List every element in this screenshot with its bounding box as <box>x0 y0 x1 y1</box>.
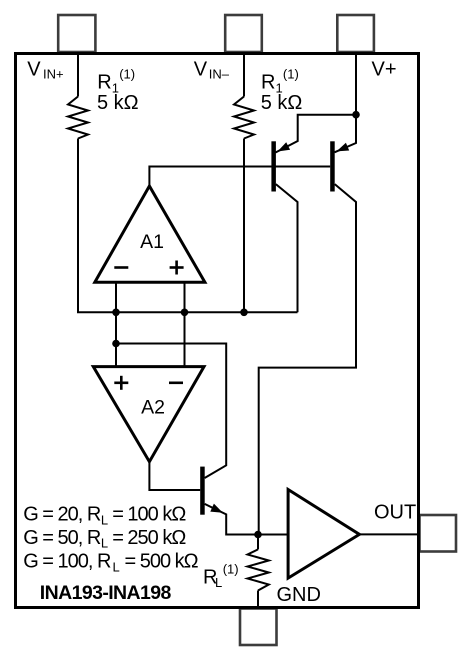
resistor RL <box>248 549 269 590</box>
svg-text:R: R <box>97 71 111 93</box>
transistor Q1 emitter wire <box>276 115 357 153</box>
op-amp A2 (triangle pointing down) <box>93 367 204 462</box>
label R1(1) middle <box>261 66 299 95</box>
transistor Q2 collector wire <box>259 184 356 534</box>
transistor Q2 emitter arrow <box>337 143 350 152</box>
svg-text:OUT: OUT <box>374 501 416 523</box>
wire A1 non-inverting input lead <box>184 282 186 312</box>
svg-text:L: L <box>101 536 108 551</box>
transistor Q1 emitter arrow <box>278 142 291 151</box>
junction dot node - (A1 inverting) <box>112 309 120 317</box>
wire A2 output to Q3 base <box>149 462 200 490</box>
wire A2 non-inverting lead from node <box>115 312 117 366</box>
A1 plus symbol <box>170 261 184 275</box>
svg-text:IN–: IN– <box>209 67 230 82</box>
label VIN+ <box>27 59 63 82</box>
resistor R1 (left, 5k) <box>68 97 88 139</box>
svg-text:A2: A2 <box>141 397 165 419</box>
wire buffer output to OUT pad <box>359 533 420 535</box>
device outline box <box>16 54 419 608</box>
wire output node to buffer input <box>258 534 288 536</box>
label RL(1) <box>203 562 239 591</box>
transistor Q3 emitter arrow <box>210 504 223 513</box>
transistor Q2 emitter wire <box>335 115 357 153</box>
svg-text:= 250 kΩ: = 250 kΩ <box>112 527 186 549</box>
gain table line 1 <box>23 504 186 528</box>
svg-text:(1): (1) <box>283 66 299 81</box>
wire A2 inverting lead <box>184 312 186 366</box>
svg-text:L: L <box>113 559 120 574</box>
transistor Q1 bar <box>271 141 276 191</box>
svg-text:G = 50, R: G = 50, R <box>23 527 101 549</box>
svg-text:A1: A1 <box>140 231 164 253</box>
svg-text:V: V <box>194 59 208 81</box>
resistor R1 (middle, 5k) <box>234 97 254 139</box>
svg-text:L: L <box>215 575 222 590</box>
svg-text:= 500 kΩ: = 500 kΩ <box>125 551 199 573</box>
svg-text:L: L <box>101 512 108 527</box>
pin pad V+ (top right) <box>337 15 374 52</box>
buffer amplifier (triangle pointing right) <box>288 490 359 579</box>
gain table line 3 <box>23 551 198 575</box>
junction dot V+ emitters <box>352 111 360 119</box>
svg-text:IN+: IN+ <box>43 67 64 82</box>
label R1(1) left <box>97 66 135 95</box>
svg-text:(1): (1) <box>223 562 239 577</box>
transistor Q3 bar <box>200 467 205 515</box>
wire RL to GND pad <box>257 591 259 608</box>
junction dot output node <box>254 531 262 539</box>
junction dot A2 + feedback <box>112 340 120 348</box>
wire VIN+ pad to resistor R1a <box>77 52 79 97</box>
wire R1b bottom to node <box>243 139 245 313</box>
svg-text:V: V <box>27 59 41 81</box>
pin pad VIN- (top middle) <box>225 15 262 52</box>
junction dot node + (A1 non-inverting) <box>181 309 189 317</box>
wire A1 inverting input lead <box>115 282 117 312</box>
wire R1a bottom to input node line <box>78 139 116 313</box>
junction dot node VIN- <box>240 309 248 317</box>
wire A1 output (apex) up and right to mirror bases <box>149 167 330 187</box>
svg-text:G = 100, R: G = 100, R <box>23 551 111 573</box>
pin pad OUT (right side) <box>420 515 457 552</box>
transistor Q2 bar <box>330 141 335 191</box>
A1 minus symbol <box>114 266 128 269</box>
svg-text:V+: V+ <box>372 59 397 81</box>
A2 minus symbol <box>169 381 183 384</box>
wire VIN- pad to resistor R1b <box>243 52 245 97</box>
label VIN- <box>194 59 230 82</box>
svg-text:5 kΩ: 5 kΩ <box>261 92 303 114</box>
wire V+ pad down to emitter node <box>355 52 357 115</box>
svg-text:GND: GND <box>277 584 321 606</box>
pin pad VIN+ (top left) <box>58 15 95 52</box>
wire output node down to RL <box>257 535 259 550</box>
op-amp A1 (triangle pointing up) <box>95 186 205 282</box>
A2 plus symbol <box>114 376 128 390</box>
gain table line 2 <box>23 527 186 551</box>
wire input node line <box>116 311 298 313</box>
pin pad GND (bottom) <box>240 609 277 646</box>
svg-text:= 100 kΩ: = 100 kΩ <box>112 504 186 526</box>
transistor Q1 collector wire <box>276 184 298 312</box>
svg-text:(1): (1) <box>119 66 135 81</box>
svg-text:INA193-INA198: INA193-INA198 <box>40 582 172 604</box>
svg-text:R: R <box>261 71 275 93</box>
wire feedback from A2 + node to Q3 collector <box>116 344 226 479</box>
transistor Q3 emitter wire <box>205 504 258 535</box>
svg-text:5 kΩ: 5 kΩ <box>97 92 139 114</box>
svg-text:G = 20, R: G = 20, R <box>23 504 101 526</box>
